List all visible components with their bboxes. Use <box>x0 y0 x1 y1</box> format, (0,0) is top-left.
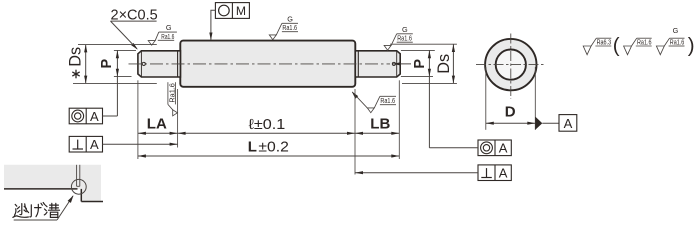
right shoulder extension line <box>354 89 356 175</box>
detail groove circle <box>71 179 86 194</box>
P dimension right: dimension line with arrows, extended down to concentricity frame <box>428 50 430 147</box>
perpendicularity frame right <box>478 165 511 181</box>
datum A triangle <box>535 117 542 130</box>
svg-text:A: A <box>90 137 99 152</box>
left stub shaft <box>138 51 181 77</box>
detail groove lines <box>76 165 78 187</box>
concentricity frame right <box>478 140 511 156</box>
perpendicularity frame right leader <box>355 172 478 174</box>
right stub shaft <box>355 51 400 77</box>
svg-text:Ra1.6: Ra1.6 <box>637 38 652 47</box>
svg-text:G: G <box>673 26 679 35</box>
asterisk of *Ds <box>72 70 79 79</box>
right center hole leader arrow <box>393 63 411 65</box>
end view inner circle <box>496 50 526 80</box>
svg-text:G: G <box>287 15 293 24</box>
svg-text:ℓ±0.1: ℓ±0.1 <box>249 117 286 133</box>
perpendicularity frame left <box>69 136 102 152</box>
svg-text:D: D <box>505 104 516 121</box>
svg-text:A: A <box>499 166 508 181</box>
relief groove label (Japanese) <box>13 203 60 218</box>
svg-text:±0.2: ±0.2 <box>258 139 289 155</box>
surface finish symbol Ra1.6 with leader at right shoulder <box>352 92 396 113</box>
note symbol G/Ra1.6 <box>656 38 684 55</box>
svg-text:M: M <box>236 4 246 18</box>
LA dimension <box>138 132 178 134</box>
svg-text:LB: LB <box>370 116 390 133</box>
svg-text:A: A <box>90 109 99 124</box>
note symbol Ra1.6 <box>624 38 652 55</box>
relief groove detail view: material section <box>4 165 101 202</box>
Ds dimension left: extension lines <box>78 44 157 46</box>
end view outer circle <box>485 39 536 90</box>
left shoulder extension line <box>177 89 179 148</box>
P dimension left: extension lines <box>114 49 136 51</box>
D dimension line <box>486 122 536 124</box>
svg-text:Ds: Ds <box>435 54 453 74</box>
svg-text:Ra1.6: Ra1.6 <box>670 38 685 47</box>
concentricity frame left <box>69 108 102 124</box>
surface finish symbol Ra1.6 rotated on left shoulder extension <box>168 82 178 116</box>
end view centerlines <box>476 64 545 66</box>
left relief groove line <box>177 51 179 77</box>
right stub chamfer contour line <box>396 51 398 76</box>
svg-text:G: G <box>166 23 172 32</box>
l +-0.1 dimension <box>178 132 355 134</box>
L +-0.2 dimension <box>138 155 399 157</box>
left center hole mark <box>142 62 145 65</box>
relief groove label leader <box>14 219 57 221</box>
svg-text:A: A <box>499 141 508 156</box>
svg-text:Ra1.6: Ra1.6 <box>397 34 412 43</box>
svg-text:Ra1.6: Ra1.6 <box>282 23 297 32</box>
svg-text:L: L <box>248 138 257 155</box>
svg-text:A: A <box>564 116 573 131</box>
concentricity frame left leader <box>103 115 118 117</box>
surface finish symbol G/Ra1.6 on right stub <box>384 34 413 50</box>
svg-text:Ra1.6: Ra1.6 <box>167 83 176 102</box>
svg-text:P: P <box>99 59 115 69</box>
main shaft body <box>180 41 355 87</box>
Ds dimension left: dimension line with arrows <box>85 45 87 84</box>
svg-text:P: P <box>412 59 428 69</box>
right center hole mark <box>392 62 395 65</box>
left end face extension line <box>137 80 139 159</box>
shaft centerline <box>129 63 391 65</box>
chamfer note leader <box>111 21 138 49</box>
detail shoulder edge <box>80 189 82 202</box>
svg-text:LA: LA <box>147 116 167 133</box>
surface finish symbol G/Ra1.6 on body <box>269 23 298 39</box>
LB dimension <box>355 132 399 134</box>
P dimension left: dimension line with arrows, extended down to concentricity frame <box>116 50 118 116</box>
Ds dimension right: extension lines <box>390 43 457 45</box>
concentricity frame right leader <box>429 147 478 149</box>
perpendicularity frame left leader <box>103 143 178 145</box>
detail body surface edge <box>81 201 103 203</box>
M option balloon <box>215 3 249 19</box>
svg-text:Ra6.3: Ra6.3 <box>597 38 612 47</box>
detail stub surface edge <box>4 188 78 190</box>
general surface note: Ra6.3 symbol <box>583 38 611 55</box>
svg-text:G: G <box>402 25 408 34</box>
datum A box <box>559 115 577 132</box>
datum A leader <box>542 122 559 124</box>
svg-text:Ra1.6: Ra1.6 <box>161 32 174 41</box>
svg-text:): ) <box>688 34 695 57</box>
right relief groove line <box>357 51 359 77</box>
svg-text:Ra1.6: Ra1.6 <box>380 96 395 105</box>
right end face extension line <box>398 80 400 159</box>
M balloon leader <box>211 10 216 39</box>
svg-text:Ds: Ds <box>67 47 85 67</box>
left stub chamfer contour line <box>140 51 142 76</box>
svg-text:(: ( <box>613 34 620 57</box>
surface finish symbol G/Ra1.6 on left stub <box>148 32 177 45</box>
Ds dimension right: dimension line with arrows <box>452 44 454 83</box>
D dimension extension lines <box>485 67 487 130</box>
P dimension right: extension lines <box>401 49 435 51</box>
